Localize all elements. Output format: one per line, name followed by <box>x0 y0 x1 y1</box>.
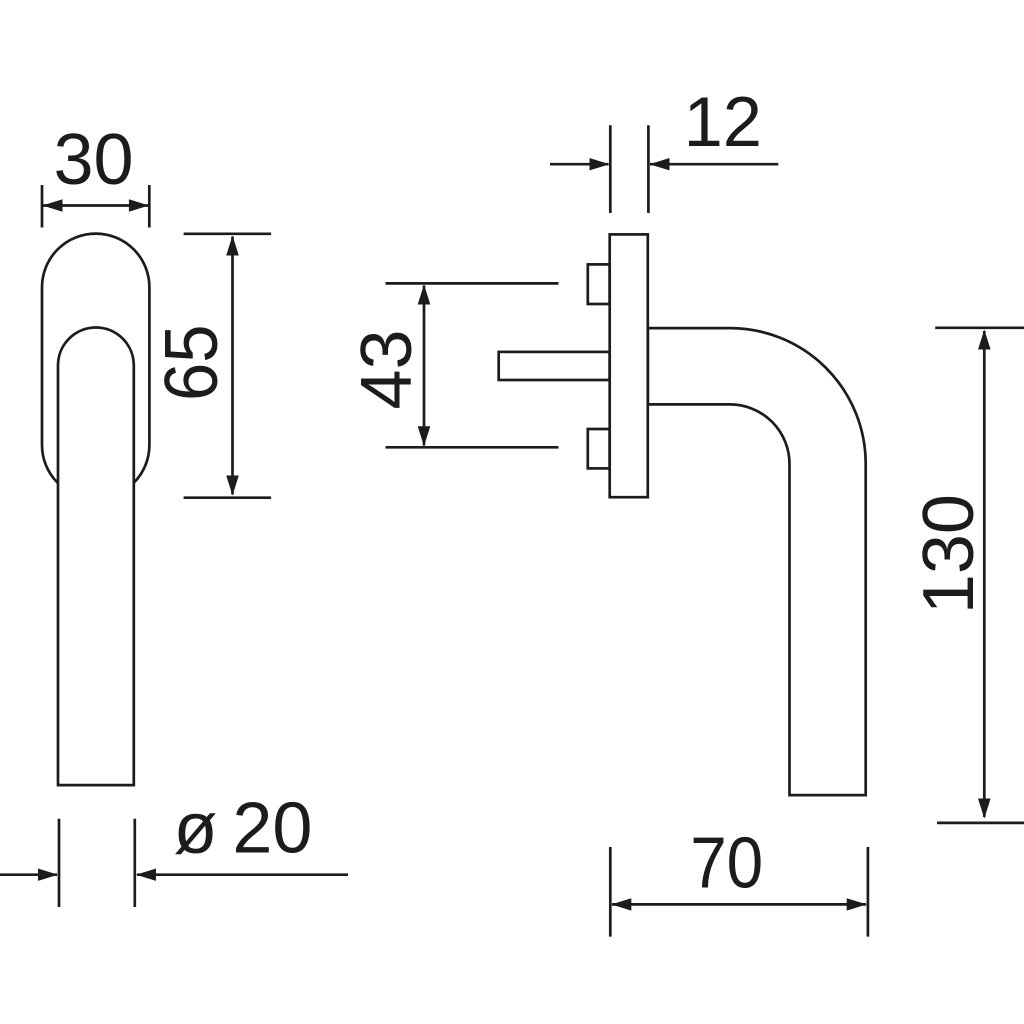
svg-text:43: 43 <box>347 329 427 409</box>
svg-text:20: 20 <box>232 788 312 868</box>
svg-text:30: 30 <box>53 120 133 200</box>
svg-text:70: 70 <box>690 824 763 904</box>
svg-text:12: 12 <box>684 82 762 161</box>
svg-text:130: 130 <box>909 494 989 614</box>
svg-text:ø: ø <box>174 789 218 869</box>
svg-text:65: 65 <box>149 324 233 401</box>
